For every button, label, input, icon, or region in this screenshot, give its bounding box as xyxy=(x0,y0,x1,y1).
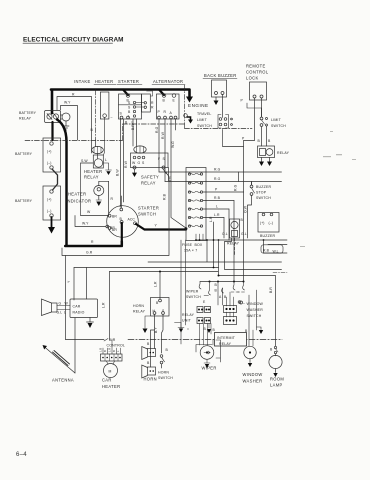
wire L down xyxy=(228,209,230,240)
small rect R.B W.L xyxy=(261,245,283,253)
svg-text:CAR: CAR xyxy=(102,378,112,383)
car radio box xyxy=(70,299,98,318)
wire B thick down xyxy=(121,223,123,242)
car heater wires xyxy=(103,340,121,355)
svg-text:B.R: B.R xyxy=(131,124,135,130)
label BUZZER xyxy=(260,234,275,238)
wire main thick bus xyxy=(51,90,185,114)
wire remote lock right pin to relay xyxy=(261,98,263,146)
wire radio to antenna xyxy=(74,318,76,373)
starter box xyxy=(119,94,142,119)
svg-text:R.G: R.G xyxy=(155,126,159,133)
car heater connector row xyxy=(101,354,123,361)
svg-text:B: B xyxy=(215,289,218,293)
svg-text:R: R xyxy=(151,101,154,105)
svg-text:6–4: 6–4 xyxy=(16,452,27,458)
wire bus to engine arrow xyxy=(185,90,190,99)
svg-text:SWITCH: SWITCH xyxy=(197,124,212,128)
wire fuse row P xyxy=(203,191,244,193)
wire fuse row R.G top xyxy=(159,171,282,173)
starter sub relay box xyxy=(142,94,151,112)
starter internal pins xyxy=(128,101,131,119)
svg-text:ACC: ACC xyxy=(128,218,136,222)
svg-text:–: – xyxy=(111,116,113,120)
wire G.R drop past speaker xyxy=(65,256,67,340)
svg-text:RELAY: RELAY xyxy=(182,313,195,317)
starter bottom pins xyxy=(120,112,123,116)
wire travel limit switch to relay xyxy=(223,130,244,147)
heater indicator housing box xyxy=(81,163,109,216)
wire bus dip to alternator pin xyxy=(159,90,164,96)
wire limit switch drops xyxy=(262,108,267,146)
wire ACC thick right xyxy=(136,224,186,230)
wire y244 xyxy=(268,244,287,246)
svg-text:SWITCH: SWITCH xyxy=(186,295,201,299)
wiper feed verticals xyxy=(181,240,186,344)
svg-text:WASHER: WASHER xyxy=(243,379,263,384)
svg-text:=: = xyxy=(187,327,189,331)
svg-text:BUZZER: BUZZER xyxy=(260,234,275,238)
fuse box xyxy=(186,168,206,241)
svg-text:S: S xyxy=(142,161,145,165)
svg-text:WIPER: WIPER xyxy=(202,366,217,371)
svg-text:B: B xyxy=(163,99,166,103)
svg-text:B: B xyxy=(156,301,159,305)
wire intake heater down xyxy=(103,117,104,155)
buzzer stop switch xyxy=(250,185,253,188)
wire long y238 xyxy=(196,239,287,241)
svg-text:O.L: O.L xyxy=(222,232,228,236)
wire R.G to buzzer stop switch xyxy=(239,172,252,185)
intake heater box xyxy=(100,92,109,119)
svg-text:STARTER: STARTER xyxy=(138,206,159,211)
wire safety relay R down xyxy=(164,169,170,178)
svg-text:HEATER: HEATER xyxy=(95,79,113,84)
svg-text:W: W xyxy=(87,210,91,214)
svg-text:W.Y: W.Y xyxy=(82,222,89,226)
svg-text:O.W: O.W xyxy=(244,205,248,213)
svg-text:G.L: G.L xyxy=(57,311,63,315)
connector above safety relay xyxy=(134,146,146,153)
label battery 2 xyxy=(15,199,33,203)
svg-text:W.Y: W.Y xyxy=(64,101,71,105)
battery relay coil xyxy=(62,113,70,121)
speaker xyxy=(52,303,58,312)
scan specks xyxy=(300,131,356,247)
svg-text:L: L xyxy=(105,158,107,162)
ground arrow under battery xyxy=(48,227,55,234)
svg-text:L: L xyxy=(216,205,218,209)
wire G.R long horizontal xyxy=(62,178,169,256)
svg-text:(–): (–) xyxy=(269,221,273,225)
svg-text:R: R xyxy=(72,93,75,97)
svg-text:L.R: L.R xyxy=(209,216,213,222)
svg-text:A: A xyxy=(170,111,173,115)
travel limit switch xyxy=(197,112,212,128)
svg-text:INDICATOR: INDICATOR xyxy=(66,199,91,204)
wire back buzzer to travel limit switch xyxy=(222,95,224,118)
wire fuse bottom G.R xyxy=(196,234,203,240)
svg-text:ELECTICAL CIRCUTY DIAGRAM: ELECTICAL CIRCUTY DIAGRAM xyxy=(23,36,124,43)
wiper L wires right xyxy=(216,340,221,362)
svg-text:STARTER: STARTER xyxy=(118,79,139,84)
svg-text:WINDOW: WINDOW xyxy=(243,372,263,377)
wire fuse row R.B xyxy=(203,200,234,202)
svg-text:W.G: W.G xyxy=(171,141,175,148)
wire bus dip to starter pin xyxy=(123,90,128,96)
label ANTENNA xyxy=(52,378,74,383)
label FUSE BOX 15A x 7 xyxy=(182,243,203,253)
wiper ground xyxy=(204,360,210,364)
wire G.R junctions to relay xyxy=(234,238,236,256)
ground under heater indicator xyxy=(96,199,102,201)
relay unit boxes xyxy=(182,313,195,323)
svg-text:R: R xyxy=(111,197,114,201)
svg-text:B: B xyxy=(147,361,150,365)
svg-text:LAMP: LAMP xyxy=(270,383,283,388)
svg-text:RELAY: RELAY xyxy=(19,117,32,121)
svg-text:B: B xyxy=(270,348,273,352)
svg-text:LIMIT: LIMIT xyxy=(197,118,208,122)
svg-text:CAR: CAR xyxy=(73,305,81,309)
svg-text:B: B xyxy=(268,139,271,143)
svg-text:LIMIT: LIMIT xyxy=(271,118,282,122)
wire P down to bus xyxy=(243,192,245,282)
svg-text:B: B xyxy=(241,218,244,222)
svg-text:B.W: B.W xyxy=(116,169,120,176)
wire fuse row L xyxy=(203,208,229,210)
svg-text:M: M xyxy=(109,370,112,374)
wire remote lock left pin P xyxy=(244,98,255,192)
svg-text:L.R: L.R xyxy=(102,302,106,308)
relay (remote) box xyxy=(258,146,275,158)
car heater motor xyxy=(104,364,118,378)
svg-text:CONTROL: CONTROL xyxy=(107,344,126,348)
svg-text:L.B: L.B xyxy=(99,348,103,352)
svg-text:INTERMIT: INTERMIT xyxy=(217,336,236,340)
svg-text:(–): (–) xyxy=(47,161,51,165)
washer drop wires xyxy=(249,290,257,346)
svg-text:R.G: R.G xyxy=(214,168,221,172)
svg-text:BATTERY: BATTERY xyxy=(19,111,37,115)
label HORN SWITCH xyxy=(158,371,173,381)
svg-text:SWITCH: SWITCH xyxy=(271,124,286,128)
svg-text:HORN: HORN xyxy=(144,377,157,382)
svg-text:TRAVEL: TRAVEL xyxy=(197,112,212,116)
wire battery1 to battery2 diagonal xyxy=(52,169,58,190)
label BACK BUZZER xyxy=(204,73,237,78)
small thick arrow near travel switch xyxy=(184,114,188,118)
wire central drop from starter area xyxy=(218,240,220,276)
svg-text:E: E xyxy=(173,99,176,103)
wires starter box to safety connector xyxy=(133,119,137,146)
wire W.Y to starter switch BR xyxy=(75,216,106,227)
page number 6-4 xyxy=(16,452,27,458)
wire bus y281 xyxy=(200,281,244,283)
svg-text:B: B xyxy=(258,139,261,143)
room lamp xyxy=(275,340,277,356)
svg-text:HORN: HORN xyxy=(133,304,144,308)
svg-text:BUZZER: BUZZER xyxy=(256,185,271,189)
svg-text:SAFETY: SAFETY xyxy=(141,175,159,180)
heater relay coil box xyxy=(93,155,103,168)
wire thick battery feed down-right xyxy=(57,120,122,247)
battery relay xyxy=(45,111,61,123)
label ROOM LAMP xyxy=(270,377,284,388)
back buzzer box xyxy=(212,80,227,97)
heater indicator lamp xyxy=(94,186,104,196)
wire second drop to radio xyxy=(86,268,88,300)
wire long horizontal mid2 xyxy=(148,240,282,262)
engine boundary dash-dot xyxy=(25,124,252,141)
horn 1 xyxy=(142,347,148,360)
svg-text:R.W: R.W xyxy=(161,131,165,139)
svg-text:INTAKE: INTAKE xyxy=(74,79,91,84)
alternator box xyxy=(157,94,180,119)
svg-text:AIR: AIR xyxy=(109,338,116,342)
label HORN RELAY xyxy=(133,304,146,314)
svg-text:UNIT: UNIT xyxy=(182,319,192,323)
label R on thick wire xyxy=(91,240,94,244)
svg-text:B: B xyxy=(215,283,218,287)
wire Y drop to car radio xyxy=(73,268,75,301)
svg-text:R: R xyxy=(91,240,94,244)
label R.W xyxy=(161,131,165,139)
svg-text:B: B xyxy=(204,327,207,331)
label battery 1 xyxy=(15,152,33,156)
battery 1 xyxy=(43,138,61,172)
svg-text:HEATER: HEATER xyxy=(68,192,86,197)
label CAR HEATER xyxy=(102,378,120,390)
svg-text:B: B xyxy=(147,342,150,346)
ground below battery relay coil xyxy=(63,121,69,130)
svg-text:REMOTE: REMOTE xyxy=(246,64,266,69)
buzzer box xyxy=(258,213,279,233)
svg-text:RELAY: RELAY xyxy=(84,174,99,179)
window washer motor xyxy=(244,346,256,358)
svg-text:ROOM: ROOM xyxy=(270,377,284,382)
label WIPER xyxy=(202,366,217,371)
svg-text:ENGINE: ENGINE xyxy=(188,103,209,108)
wire C up xyxy=(120,196,122,208)
svg-text:SWITCH: SWITCH xyxy=(158,376,173,380)
svg-text:W: W xyxy=(132,161,136,165)
wire E vertical xyxy=(169,168,172,182)
svg-text:R.B: R.B xyxy=(214,196,221,200)
title xyxy=(23,36,124,43)
label WINDOW WASHER xyxy=(243,372,263,384)
svg-text:G.L: G.L xyxy=(241,232,247,236)
svg-text:P: P xyxy=(158,110,161,114)
label HEATER INDICATOR xyxy=(66,192,91,204)
remote control lock box xyxy=(250,82,267,100)
svg-text:R.G: R.G xyxy=(214,177,221,181)
svg-text:BACK BUZZER: BACK BUZZER xyxy=(204,73,237,78)
svg-text:(+): (+) xyxy=(47,150,52,154)
wire L.R down xyxy=(214,218,225,268)
svg-text:LOCK: LOCK xyxy=(246,76,259,81)
wiper motor wires xyxy=(200,324,212,346)
svg-text:CONTROL: CONTROL xyxy=(246,70,269,75)
horn 2 xyxy=(142,365,148,378)
wire buzzer stop to buzzer xyxy=(248,196,252,239)
wire R.W vertical from starter B pin xyxy=(123,119,125,202)
svg-text:(+): (+) xyxy=(47,198,52,202)
svg-text:S: S xyxy=(128,106,131,110)
label ALTERNATOR xyxy=(153,79,183,84)
svg-text:RELAY: RELAY xyxy=(133,310,146,314)
horn switch xyxy=(162,315,164,354)
svg-text:B: B xyxy=(128,110,131,114)
svg-text:S.W: S.W xyxy=(81,159,88,163)
wire W.Y from relay xyxy=(61,106,78,141)
svg-text:L.R: L.R xyxy=(108,348,112,352)
wire R from relay down to heater xyxy=(57,97,92,154)
ground under safety relay xyxy=(134,169,136,173)
wire battery 2 to ground arrow xyxy=(51,217,53,228)
wire thick battery relay to battery 1 xyxy=(51,122,53,140)
svg-text:G: G xyxy=(59,302,62,306)
svg-text:R.G: R.G xyxy=(234,184,238,191)
svg-text:(+): (+) xyxy=(260,221,265,225)
svg-text:L: L xyxy=(64,311,66,315)
engine arrowhead xyxy=(186,97,193,103)
svg-text:G: G xyxy=(138,161,141,165)
wire lower box top y271 xyxy=(110,271,219,273)
svg-text:B: B xyxy=(245,329,248,333)
label INTERMIT RELAY boxed xyxy=(215,333,247,347)
label STARTER SWITCH xyxy=(138,206,159,217)
svg-text:Y: Y xyxy=(67,280,71,283)
title underline xyxy=(23,42,113,44)
svg-text:B: B xyxy=(112,350,116,352)
wire limit switch feed from bus area xyxy=(247,103,262,108)
svg-text:WIPER: WIPER xyxy=(186,290,199,294)
horn relay box xyxy=(151,298,170,317)
svg-text:BATTERY: BATTERY xyxy=(15,199,33,203)
room lamp switch xyxy=(274,346,276,348)
wire R.B down xyxy=(233,201,235,282)
wire B.W down from starter S pin xyxy=(119,119,121,207)
wire bus to horn relay xyxy=(159,272,161,300)
svg-text:HEATER: HEATER xyxy=(84,169,102,174)
label RELAY (G.L) xyxy=(227,242,240,246)
svg-text:W.L: W.L xyxy=(273,250,279,254)
svg-text:W: W xyxy=(65,302,69,306)
intermit relay boxes xyxy=(224,306,237,313)
label ENGINE xyxy=(188,103,209,108)
svg-text:RELAY: RELAY xyxy=(277,151,290,155)
svg-text:L.R: L.R xyxy=(154,281,158,287)
svg-text:G.R: G.R xyxy=(86,251,93,255)
svg-text:RELAY: RELAY xyxy=(219,342,232,346)
svg-text:HORN: HORN xyxy=(158,371,169,375)
ground arrow under back buzzer xyxy=(215,97,217,101)
svg-text:P: P xyxy=(242,137,245,141)
svg-text:P: P xyxy=(241,99,244,103)
wire relay drop to y269.5 xyxy=(225,238,282,270)
wiper motor xyxy=(200,346,214,360)
wire LR left vertical xyxy=(109,272,111,340)
svg-text:SWITCH: SWITCH xyxy=(256,196,271,200)
svg-text:SWITCH: SWITCH xyxy=(138,212,156,217)
svg-text:B: B xyxy=(91,128,94,132)
ground under car radio xyxy=(87,318,94,323)
label R.G xyxy=(155,126,159,133)
svg-text:S: S xyxy=(128,101,131,105)
starter switch circle xyxy=(107,206,139,238)
label P near remote lock xyxy=(241,99,244,103)
svg-text:ALTERNATOR: ALTERNATOR xyxy=(153,79,183,84)
window washer switch contacts xyxy=(233,282,244,291)
svg-text:ANTENNA: ANTENNA xyxy=(52,378,74,383)
label HEATER RELAY xyxy=(84,169,102,179)
battery 2 xyxy=(43,186,61,220)
svg-text:B: B xyxy=(166,348,169,352)
svg-text:R.B: R.B xyxy=(263,249,270,253)
label HORN xyxy=(144,377,157,382)
label INTAKE HEATER STARTER xyxy=(74,79,139,84)
wire down to heater connector xyxy=(95,90,97,140)
washer ground xyxy=(249,359,251,363)
wire y275 to washer xyxy=(219,276,276,340)
svg-text:B.R: B.R xyxy=(269,287,273,293)
svg-text:B: B xyxy=(103,350,107,352)
svg-text:-: - xyxy=(233,227,234,231)
label WINDOW WASHER SWITCH xyxy=(247,302,264,318)
svg-text:15A × 7: 15A × 7 xyxy=(184,249,197,253)
G.L relay xyxy=(230,219,240,238)
wire long horizontal mid3 xyxy=(74,267,219,269)
wire buzzer drop xyxy=(264,240,288,253)
wire horn relay H to horns xyxy=(151,315,155,368)
safety relay box xyxy=(131,153,169,168)
svg-text:Y: Y xyxy=(155,224,158,228)
wire fuse row R.G 2 xyxy=(165,181,282,183)
svg-text:RELAY: RELAY xyxy=(227,242,240,246)
svg-text:STOP: STOP xyxy=(256,191,267,195)
svg-text:B: B xyxy=(213,328,216,332)
wiper switch contacts xyxy=(186,290,201,300)
dash-dot vertical at engine xyxy=(184,85,186,124)
svg-text:–: – xyxy=(243,301,245,305)
wires alternator down xyxy=(159,119,186,228)
svg-text:BATTERY: BATTERY xyxy=(15,152,33,156)
svg-text:HEATER: HEATER xyxy=(102,384,120,389)
svg-text:A: A xyxy=(219,295,222,299)
limit switch right xyxy=(271,118,286,128)
svg-text:R.B: R.B xyxy=(163,193,167,200)
antenna mast xyxy=(44,347,75,374)
ground left of horns xyxy=(145,316,150,328)
wire lower dashdot row xyxy=(66,339,105,341)
svg-text:R: R xyxy=(164,110,167,114)
svg-text:L.R: L.R xyxy=(214,213,220,217)
svg-text:R: R xyxy=(151,106,154,110)
svg-text:(–): (–) xyxy=(47,209,51,213)
connector above heater relay xyxy=(92,146,104,153)
label BATTERY RELAY xyxy=(19,111,37,121)
svg-text:R.W: R.W xyxy=(124,160,128,168)
starter internal divider xyxy=(119,104,142,106)
label SAFETY RELAY xyxy=(141,175,159,186)
grounds under relay xyxy=(262,158,270,163)
ground right of heater relay xyxy=(103,163,111,170)
svg-text:RADIO: RADIO xyxy=(73,311,85,315)
label W.G xyxy=(171,141,175,148)
svg-text:BR: BR xyxy=(112,215,117,219)
grounds relay unit xyxy=(175,323,185,328)
